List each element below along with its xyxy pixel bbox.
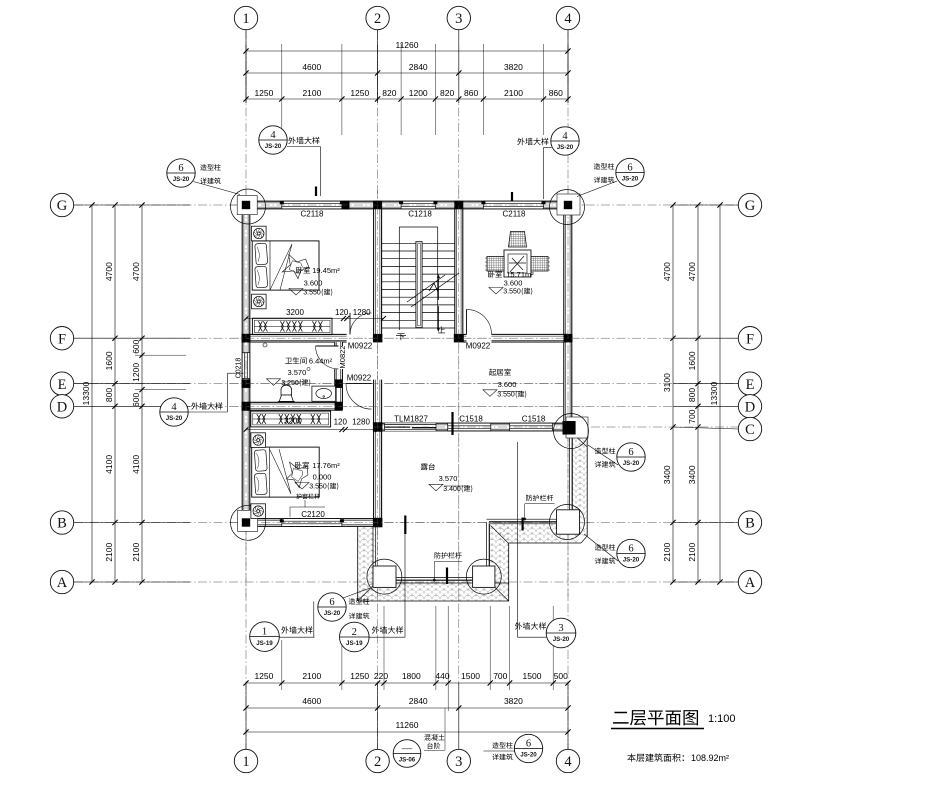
svg-text:4: 4 (562, 131, 568, 142)
svg-text:700: 700 (687, 409, 697, 423)
bedroom1 elevation mark (289, 289, 303, 296)
wall axis F segment bedroom1/bath (242, 334, 346, 342)
section tick wall B leader2 (404, 516, 406, 535)
svg-text:6.44m²: 6.44m² (309, 357, 333, 366)
svg-text:3.570: 3.570 (439, 474, 458, 483)
svg-text:D: D (57, 400, 67, 416)
solid axis stubs near bubbles (245, 30, 247, 103)
svg-text:JS-20: JS-20 (622, 176, 639, 183)
svg-text:1:100: 1:100 (708, 713, 736, 725)
svg-text:1280: 1280 (352, 418, 370, 427)
stair treads (382, 242, 455, 244)
wash basin (312, 386, 336, 401)
svg-text:6: 6 (178, 163, 183, 174)
svg-text:C1518: C1518 (522, 415, 546, 424)
svg-text:220: 220 (374, 671, 388, 681)
wall axis F segment bedroom3 (492, 334, 569, 342)
window C1518 right in wall C (510, 423, 553, 431)
axis bubble B left (50, 511, 73, 534)
svg-text:2: 2 (352, 627, 357, 638)
svg-text:2100: 2100 (687, 542, 697, 561)
detail index 6/JS-20 top left (zaoxingzhu) (167, 159, 195, 187)
column F/3 (454, 334, 464, 343)
column F/2 (373, 334, 383, 343)
detail index 6/JS-20 right B4 (617, 539, 645, 567)
window C0218 in wall axis 1 (242, 353, 250, 379)
detail index 2/JS-19 bottom (340, 622, 370, 652)
axis bubble F left (50, 327, 73, 350)
svg-text:JS-20: JS-20 (557, 144, 574, 151)
detail circle terrace column left (367, 559, 402, 594)
svg-text:B: B (745, 516, 755, 532)
wall axis 2 lower (bedroom2 east) (374, 380, 382, 527)
svg-text:4: 4 (564, 754, 572, 770)
living room elevation mark (483, 390, 497, 397)
detail circle terrace column right (466, 559, 501, 594)
bed bedroom2 fold (270, 449, 292, 494)
svg-text:108.92m²: 108.92m² (691, 753, 729, 763)
svg-text:F: F (58, 331, 66, 347)
bed bedroom1 pillows (255, 243, 268, 265)
terrace parapet bottom band (358, 583, 509, 601)
svg-text:JS-19: JS-19 (256, 640, 273, 647)
svg-text:500: 500 (554, 671, 568, 681)
svg-text:1600: 1600 (104, 351, 114, 370)
bedroom3 stool (hatched trapezoid) (509, 232, 527, 248)
svg-text:JS-20: JS-20 (166, 415, 183, 422)
detail index 4/JS-20 left middle (160, 398, 188, 426)
svg-text:800: 800 (104, 388, 114, 402)
axis bubble 2 bottom (366, 749, 389, 772)
detail index 6/JS-20 top right (616, 158, 644, 186)
bed bedroom2 pillows (254, 450, 267, 472)
detail circle around C/4 column (554, 414, 589, 449)
svg-text:6: 6 (628, 543, 633, 554)
bathroom east wall with M0822 opening (335, 342, 343, 346)
svg-text:4700: 4700 (131, 262, 141, 281)
door M0922 bedroom1 (leaf and arc) (350, 313, 372, 335)
stair label up (438, 326, 445, 333)
svg-text:JS-06: JS-06 (399, 757, 416, 764)
wall axis 4 (east) (564, 209, 572, 423)
svg-text:3.550: 3.550 (497, 392, 515, 399)
axis bubble B right (738, 511, 761, 534)
terrace middle railing (487, 518, 564, 520)
top extension lines (245, 44, 247, 103)
svg-text:19.45m²: 19.45m² (312, 266, 340, 275)
svg-text:1600: 1600 (687, 351, 697, 370)
svg-text:120: 120 (335, 308, 349, 317)
grid axis line B (74, 522, 738, 524)
svg-text:G: G (57, 198, 68, 214)
svg-text:B: B (57, 516, 67, 532)
svg-text:1800: 1800 (402, 671, 421, 681)
svg-text:1500: 1500 (461, 671, 480, 681)
detail index 4/JS-20 top right (551, 127, 579, 155)
svg-text:3820: 3820 (504, 696, 523, 706)
bedroom3 room label (488, 271, 502, 278)
section tick bottom railing (446, 568, 448, 585)
terrace parapet right band (573, 436, 588, 536)
svg-text:2840: 2840 (409, 62, 428, 72)
svg-text:M0922: M0922 (348, 342, 373, 351)
svg-text:4600: 4600 (302, 62, 321, 72)
svg-text:3: 3 (558, 623, 563, 634)
window jamb blocks wall G (280, 201, 284, 204)
svg-text:4100: 4100 (104, 455, 114, 474)
svg-text:800: 800 (687, 388, 697, 402)
section tick top left window (315, 187, 317, 197)
guard rail label bottom (435, 552, 462, 558)
grid axis line C (374, 426, 738, 428)
bed bedroom1 fold (270, 244, 292, 290)
terrace parapet left band (358, 527, 376, 601)
column G/2 (373, 201, 382, 210)
svg-text:700: 700 (493, 671, 507, 681)
svg-text:860: 860 (464, 88, 478, 98)
svg-text:JS-20: JS-20 (173, 176, 190, 183)
svg-text:A: A (745, 575, 756, 591)
nightstand bedroom1 bottom (252, 294, 267, 309)
terrace column right (473, 566, 495, 587)
svg-text:820: 820 (440, 88, 454, 98)
toilet (281, 385, 292, 395)
svg-text:3100: 3100 (662, 373, 672, 392)
bedroom3 dressing table (504, 250, 531, 277)
svg-text:3.550: 3.550 (303, 290, 321, 297)
column E bath wall (335, 379, 343, 388)
svg-text:0.000: 0.000 (313, 473, 332, 482)
svg-text:JS-20: JS-20 (324, 610, 341, 617)
svg-text:2: 2 (374, 754, 381, 770)
svg-text:3.600: 3.600 (304, 279, 323, 288)
axis bubble 4 bottom (556, 749, 579, 772)
feature column square B/1 (238, 510, 258, 531)
svg-text:D: D (745, 400, 755, 416)
svg-text:2100: 2100 (662, 542, 672, 561)
svg-text:C2118: C2118 (301, 210, 325, 219)
bathroom elevation mark (267, 379, 281, 386)
column F/4 (564, 334, 573, 343)
floor drain (263, 343, 267, 347)
terrace label (421, 463, 435, 470)
svg-text:2100: 2100 (504, 88, 523, 98)
dimension line 4600/2840/3820 bottom (246, 707, 568, 709)
column G/4 (563, 200, 573, 210)
svg-text:1500: 1500 (523, 671, 542, 681)
column F/1 (242, 334, 251, 343)
terrace column B/4 (557, 510, 580, 534)
axis bubble A right (738, 570, 761, 593)
bedroom1 room label (296, 267, 310, 274)
svg-text:860: 860 (549, 88, 563, 98)
column D bath wall (335, 402, 343, 411)
svg-text:1250: 1250 (350, 88, 369, 98)
wall axis B (bedroom2 south) (242, 519, 381, 527)
bedroom3 side unit left (487, 257, 504, 272)
detail circle around G/1 column (231, 189, 266, 224)
svg-text:3.400: 3.400 (443, 486, 461, 493)
nightstand bedroom2 bottom (251, 504, 266, 519)
feature column square G/4 (557, 194, 580, 215)
svg-text:4100: 4100 (131, 455, 141, 474)
svg-text:E: E (58, 377, 67, 393)
svg-text:1: 1 (242, 11, 249, 27)
grid axis line A (74, 581, 738, 583)
wardrobe bedroom2 (251, 411, 331, 427)
grid axis line 2 (377, 30, 379, 749)
dimension chain bottom detail (246, 682, 568, 684)
svg-text:6: 6 (526, 738, 531, 749)
svg-text:6: 6 (628, 447, 633, 458)
svg-text:F: F (746, 331, 754, 347)
column G/3 (454, 201, 463, 210)
nightstand bedroom2 top (251, 433, 266, 448)
svg-text:3.600: 3.600 (504, 279, 523, 288)
svg-text:JS-20: JS-20 (553, 636, 570, 643)
svg-text:TLM1827: TLM1827 (394, 415, 428, 424)
dimension line 4600/2840/3820 top (246, 72, 568, 74)
section tick middle railing (521, 518, 523, 531)
detail index 6/JS-20 bottom left (318, 593, 346, 621)
svg-text:2100: 2100 (302, 88, 321, 98)
svg-text:2100: 2100 (104, 542, 114, 561)
sliding door TLM1827 in wall C (385, 423, 437, 431)
svg-text:JS-20: JS-20 (623, 460, 640, 467)
column B/2 (373, 518, 383, 528)
axis bubble 3 top (447, 6, 470, 29)
detail index -/JS-06 concrete steps (393, 740, 421, 768)
axis bubble F right (738, 327, 761, 350)
axis bubble D right (738, 395, 761, 418)
svg-text:1250: 1250 (254, 88, 273, 98)
column G/1 (241, 200, 251, 210)
stair well rectangle (399, 226, 437, 228)
window jamb blocks wall B (280, 519, 284, 522)
detail index 6/JS-20 right C4 (617, 443, 645, 471)
svg-text:3400: 3400 (662, 465, 672, 484)
svg-text:JS-20: JS-20 (520, 752, 537, 759)
svg-text:3.550: 3.550 (309, 484, 327, 491)
dimension line total 11260 top (246, 50, 568, 52)
window C2118 right in wall G (483, 201, 543, 209)
section tick top right window (511, 192, 513, 202)
feature column square C/4 (566, 417, 588, 438)
grid axis line D (74, 405, 738, 407)
svg-text:3400: 3400 (687, 465, 697, 484)
svg-text:C1218: C1218 (408, 210, 432, 219)
svg-text:2: 2 (374, 11, 381, 27)
bedroom2 room label (295, 462, 309, 469)
svg-text:1200: 1200 (131, 363, 141, 382)
svg-text:13300: 13300 (709, 381, 719, 405)
svg-text:3.250: 3.250 (281, 380, 299, 387)
axis centerlines over walls (245, 190, 247, 600)
window C2120 in wall B (282, 519, 342, 527)
column C/2 (373, 422, 383, 432)
axis bubble 3 bottom (447, 749, 470, 772)
grid axis line F (74, 337, 738, 339)
svg-text:1250: 1250 (254, 671, 273, 681)
svg-text:3200: 3200 (286, 308, 304, 317)
stair center handrail (416, 242, 422, 328)
grid axis line 4 (567, 30, 569, 749)
dimension line total 11260 bottom (246, 731, 568, 733)
svg-text:1: 1 (262, 626, 267, 637)
svg-text:1: 1 (242, 754, 249, 770)
svg-text:11260: 11260 (395, 40, 418, 50)
interior dim 3200/120/1280 bedroom2 (246, 429, 378, 431)
section tick C1518 (451, 412, 453, 435)
bedroom3 side unit right (531, 257, 548, 272)
column G wall pier (342, 201, 350, 210)
door M0822 bathroom (leaf and arc) (316, 346, 339, 369)
svg-text:4700: 4700 (104, 262, 114, 281)
window guard label bedroom2 (296, 493, 320, 499)
svg-text:C2120: C2120 (301, 510, 325, 519)
axis bubble C right (738, 417, 761, 440)
grid axis line 1 (245, 30, 247, 749)
detail index 1/JS-19 bottom (250, 622, 280, 652)
left dimension lines (91, 205, 93, 582)
guard rail label middle (526, 495, 553, 501)
stair label down (397, 333, 404, 340)
stair up arrow (437, 278, 439, 300)
grid axis line 3 (458, 30, 460, 749)
axis bubble E right (738, 372, 761, 395)
wall axis C with openings (382, 423, 563, 431)
svg-text:JS-19: JS-19 (346, 640, 363, 647)
axis bubble A left (50, 570, 73, 593)
svg-text:A: A (57, 575, 68, 591)
axis bubble 1 bottom (234, 749, 257, 772)
nightstand bedroom1 top (252, 226, 267, 241)
svg-text:M0922: M0922 (466, 342, 491, 351)
column C/4 (563, 421, 576, 435)
detail index 6/JS-20 bottom middle (514, 734, 542, 762)
svg-text:M0922: M0922 (347, 374, 372, 383)
terrace parapet miter joints (358, 583, 376, 601)
bedroom3 elevation mark (489, 288, 503, 295)
living room label (489, 369, 511, 376)
svg-text:600: 600 (131, 339, 141, 353)
axis bubble 4 top (556, 6, 579, 29)
svg-text:6: 6 (627, 162, 632, 173)
grid axis line E (74, 383, 738, 385)
svg-text:JS-20: JS-20 (623, 557, 640, 564)
svg-text:4: 4 (564, 11, 572, 27)
terrace elevation mark (429, 484, 443, 491)
door M0922 bedroom3 (leaf and arc) (467, 309, 492, 334)
svg-text:440: 440 (435, 671, 449, 681)
wall axis D segment (bath south) (242, 402, 342, 410)
svg-text:11260: 11260 (395, 720, 418, 730)
svg-text:C2118: C2118 (503, 210, 527, 219)
column E/1 (242, 379, 251, 388)
svg-text:3.550: 3.550 (503, 289, 521, 296)
detail circle around B/1 column (231, 505, 266, 540)
bed bedroom2 quilt crumple (286, 462, 308, 488)
wardrobe bedroom1 (252, 318, 332, 334)
bed bedroom1 (252, 241, 319, 290)
svg-text:13300: 13300 (81, 381, 91, 405)
axis bubble G left (50, 193, 73, 216)
detail circle B/4 column (550, 505, 585, 540)
wall axis 2 upper (stairwell west) (374, 209, 382, 335)
svg-text:820: 820 (382, 88, 396, 98)
svg-text:3200: 3200 (284, 416, 302, 425)
stair down arrow (437, 306, 439, 328)
svg-text:1250: 1250 (350, 671, 369, 681)
svg-text:4700: 4700 (687, 262, 697, 281)
bedroom2 elevation mark (295, 483, 309, 490)
detail index 3/JS-20 bottom right (546, 618, 576, 648)
bed bedroom1 quilt crumple (282, 254, 309, 278)
svg-text:—: — (401, 743, 413, 754)
dimension chain top detail (246, 98, 568, 100)
right dimension lines (672, 205, 674, 582)
svg-text:6: 6 (329, 597, 334, 608)
svg-text:4: 4 (270, 130, 276, 141)
svg-text:4: 4 (171, 402, 177, 413)
svg-text:2100: 2100 (131, 542, 141, 561)
window C1218 in wall G (401, 201, 435, 209)
svg-text:4700: 4700 (662, 262, 672, 281)
svg-text:C1518: C1518 (459, 415, 483, 424)
detail index 4/JS-20 top left (waiqiang dayang) (259, 126, 287, 154)
floor area note (627, 753, 684, 761)
wall axis G (north) (242, 201, 572, 209)
bottom extension lines (281, 640, 283, 690)
axis bubble 1 top (234, 6, 257, 29)
axis bubble 2 top (366, 6, 389, 29)
svg-text:1200: 1200 (409, 88, 428, 98)
svg-text:2100: 2100 (302, 671, 321, 681)
svg-text:120: 120 (334, 418, 348, 427)
svg-text:2840: 2840 (409, 696, 428, 706)
svg-text:4600: 4600 (302, 696, 321, 706)
wall axis 3 (stairwell east) (455, 209, 463, 342)
stair break line (411, 273, 459, 307)
terrace bottom railing (376, 577, 487, 579)
svg-text:G: G (745, 198, 756, 214)
svg-text:600: 600 (131, 393, 141, 407)
window C1518 left in wall C (448, 423, 491, 431)
svg-text:3: 3 (455, 754, 462, 770)
svg-text:C0218: C0218 (236, 358, 243, 379)
svg-text:17.76m²: 17.76m² (312, 461, 340, 470)
detail circle around G/4 column (550, 190, 585, 225)
column D/1 (242, 402, 251, 411)
svg-text:3.600: 3.600 (498, 380, 517, 389)
svg-text:JS-20: JS-20 (265, 143, 282, 150)
svg-text:E: E (746, 377, 755, 393)
window C2118 left in wall G (282, 201, 342, 209)
terrace column left (373, 566, 396, 587)
svg-text:M0822: M0822 (338, 346, 347, 369)
axis bubble D left (50, 395, 73, 418)
axis bubble E left (50, 372, 73, 395)
column B/1 (241, 518, 251, 528)
bed bedroom2 (252, 447, 320, 497)
svg-text:3820: 3820 (504, 62, 523, 72)
terrace parapet middle band (500, 524, 578, 543)
svg-text:1280: 1280 (353, 308, 371, 317)
drawing title (613, 710, 698, 725)
feature column square G/1 (237, 196, 257, 215)
door M0922 corridor (leaf and arc) (346, 384, 372, 410)
wall axis F stub at axis3 (463, 334, 467, 342)
